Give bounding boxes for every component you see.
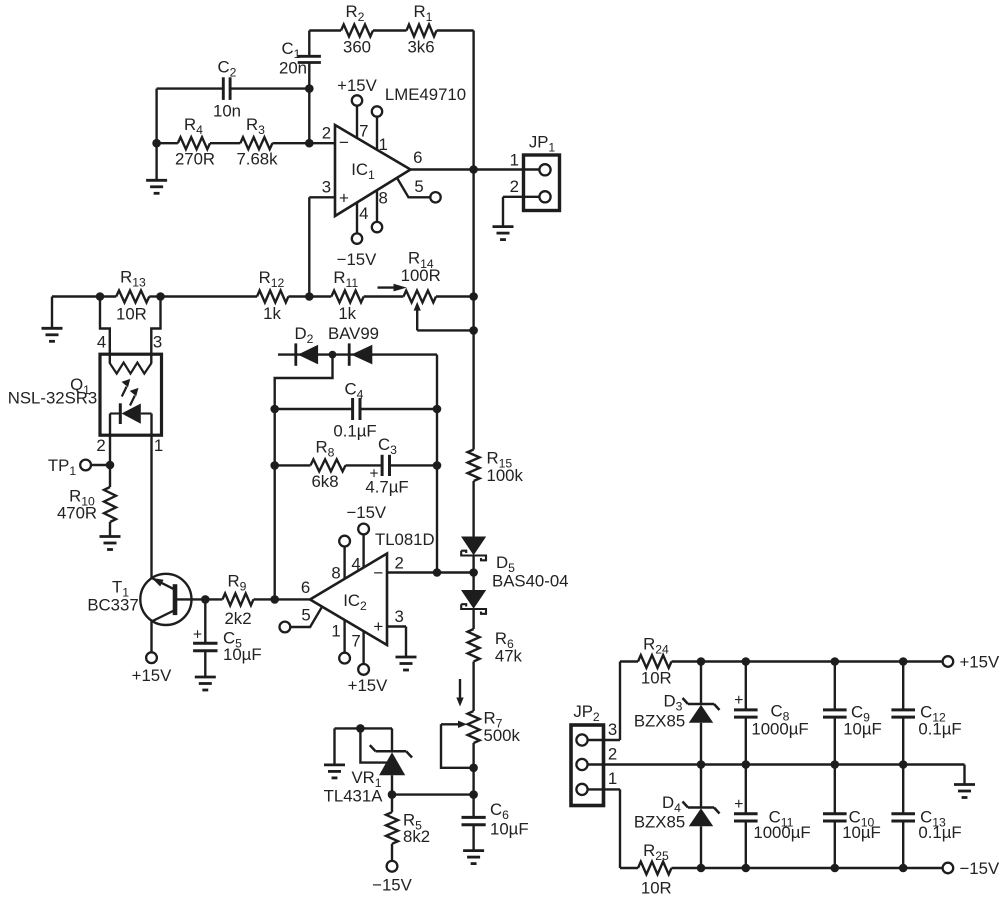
terminal -15V R5 (387, 861, 398, 872)
label BZX85 D4 (634, 813, 685, 832)
pin 8 IC2 (331, 536, 350, 583)
node output junction (469, 165, 478, 174)
label pin 2 (322, 123, 331, 142)
svg-text:1k: 1k (263, 304, 281, 323)
resistor R10 (104, 465, 116, 536)
label D5 (496, 553, 515, 575)
capacitor C12 (891, 662, 915, 765)
svg-text:6k8: 6k8 (311, 472, 338, 491)
resistor R5 (386, 795, 398, 861)
wire JP2 pin3 to +rail (620, 662, 638, 741)
svg-text:100k: 100k (487, 466, 524, 485)
label pin 3 (322, 178, 331, 197)
label C6 (490, 800, 509, 822)
svg-text:3: 3 (395, 607, 404, 626)
label C1 (282, 39, 301, 61)
svg-text:3k6: 3k6 (407, 38, 434, 57)
node -rail C11 (742, 864, 751, 873)
label R10 (69, 487, 95, 509)
wire VR1 ref loop (360, 728, 387, 762)
svg-text:+: + (734, 796, 743, 813)
capacitor C13 (891, 765, 915, 869)
svg-text:10µF: 10µF (842, 823, 881, 842)
svg-text:4: 4 (351, 555, 360, 574)
label T1 (112, 578, 129, 600)
ground left of VR1 (324, 728, 345, 778)
node R4 left junction (152, 139, 161, 148)
resistor R6 (468, 629, 480, 662)
label C9 (851, 702, 870, 724)
label 1000uF C11 (753, 823, 810, 842)
svg-text:TL431A: TL431A (324, 786, 384, 805)
label VR1 (351, 768, 381, 790)
capacitor C5 (193, 599, 218, 676)
wire R13 to R12 (161, 295, 258, 297)
label R2 (346, 2, 365, 24)
svg-text:2: 2 (96, 436, 105, 455)
node R13 left (96, 292, 105, 301)
svg-text:10R: 10R (641, 878, 672, 897)
wire C2 left branch (155, 89, 157, 144)
node C4 left (270, 405, 279, 414)
label 10uF C5 (223, 645, 262, 664)
svg-text:2: 2 (322, 123, 331, 142)
light arrows inside Q1 (122, 379, 139, 406)
label pin 6 IC2 (301, 578, 310, 597)
svg-text:2: 2 (608, 744, 617, 763)
label 7.68k (236, 149, 278, 168)
svg-text:1: 1 (510, 151, 519, 170)
svg-text:3: 3 (322, 178, 331, 197)
label 100k (487, 466, 524, 485)
svg-text:7: 7 (359, 121, 368, 140)
label C2 (218, 58, 237, 80)
pin 5 IC2 (280, 606, 323, 633)
svg-text:−15V: −15V (960, 859, 1000, 878)
label 0.1uF C4 (333, 422, 376, 441)
node +rail C12 (899, 657, 908, 666)
pin 1 IC2 (331, 620, 350, 663)
svg-text:−: − (339, 133, 349, 152)
capacitor C2 (157, 77, 310, 100)
svg-text:+15V: +15V (960, 653, 1000, 672)
diode D2b (349, 343, 372, 365)
wire opto pin4 (100, 297, 110, 364)
wire IC1 output pin 6 (411, 148, 541, 170)
capacitor C8 (734, 662, 758, 765)
svg-text:10µF: 10µF (490, 820, 529, 839)
svg-text:1: 1 (331, 621, 340, 640)
svg-text:+15V: +15V (348, 676, 388, 695)
pin 3 JP2 (576, 720, 620, 746)
svg-text:0.1µF: 0.1µF (918, 720, 961, 739)
wire left vertical C4 to pin6 (274, 409, 276, 599)
label D4 (662, 793, 681, 815)
wire 0V rail (588, 763, 965, 765)
wire D2 rail (278, 353, 437, 355)
potentiometer R7 (468, 711, 480, 743)
svg-text:+15V: +15V (337, 76, 377, 95)
label -15V IC2 (346, 503, 386, 522)
label R5 (403, 811, 422, 833)
label C4 (345, 379, 364, 401)
resistor R1 (407, 25, 437, 37)
node pin2 mid junction (433, 568, 442, 577)
LED inside Q1 (110, 403, 152, 424)
ground JP1 (493, 197, 514, 240)
diode D2a (296, 343, 318, 365)
wire right vertical C4/C3 (436, 355, 438, 573)
svg-text:BC337: BC337 (87, 596, 138, 615)
svg-text:1000µF: 1000µF (751, 720, 808, 739)
svg-text:470R: 470R (57, 504, 97, 523)
label TL081D (375, 530, 435, 549)
wire opto pin3 (151, 297, 160, 364)
label 1k R11 (338, 304, 356, 323)
node TP1 junction (106, 461, 115, 470)
label C13 (920, 808, 946, 830)
label 10uF C6 (490, 820, 529, 839)
label C11 (769, 808, 794, 830)
resistor R4 (157, 137, 210, 149)
node R13 right (156, 292, 165, 301)
wire main bus upper (472, 31, 474, 450)
label +15V IC1 (337, 76, 377, 95)
label 2k2 (224, 609, 251, 628)
wire T1 collector to +15V (146, 621, 157, 663)
svg-text:500k: 500k (484, 726, 521, 745)
node R12-R11 junction (305, 292, 314, 301)
connector JP1 box (524, 155, 560, 211)
label 500k (484, 726, 521, 745)
label 20n (279, 59, 307, 78)
svg-text:1k: 1k (338, 304, 356, 323)
label JP1 (529, 133, 556, 155)
pin 7 IC1 (352, 95, 369, 140)
pin 7 IC2 (351, 631, 369, 675)
svg-text:BZX85: BZX85 (634, 813, 685, 832)
node C4 right (433, 405, 442, 414)
label C3 (378, 435, 397, 457)
label R12 (259, 268, 285, 290)
node +rail C9 (831, 657, 840, 666)
label pin 4 opto (97, 333, 106, 352)
svg-text:+: + (339, 188, 349, 207)
label BZX85 D3 (634, 712, 685, 731)
svg-text:4: 4 (359, 204, 368, 223)
test point TP1 (48, 456, 110, 478)
label BAS40-04 (492, 572, 569, 591)
node R7 wiper junction (469, 764, 478, 773)
wire opto pin2 (96, 414, 110, 466)
wire +15V rail (672, 660, 943, 662)
svg-text:1: 1 (154, 436, 163, 455)
node bus mid-wire junction (469, 292, 478, 301)
pin 5 IC1 (397, 177, 441, 203)
wire middle rail left (52, 295, 100, 297)
label +15V T1 (132, 666, 172, 685)
wire opto pin1 (152, 414, 164, 578)
wire R7 to C6 node (472, 743, 474, 795)
svg-text:LME49710: LME49710 (385, 85, 466, 104)
svg-text:1: 1 (379, 135, 388, 154)
node bus wiper junction (469, 326, 478, 335)
svg-text:7.68k: 7.68k (236, 149, 278, 168)
label 100R (401, 266, 441, 285)
node base junction (201, 595, 210, 604)
node -rail C13 (899, 864, 908, 873)
svg-text:+: + (193, 627, 202, 644)
node IC2 pin6 junction (270, 595, 279, 604)
label 10uF C10 (842, 823, 881, 842)
node VR1 ref junction (356, 724, 365, 733)
ground under C6 (463, 851, 484, 864)
wire IC1 pin3 input (309, 197, 335, 296)
resistor R12 (257, 291, 309, 303)
label R14 (408, 249, 434, 271)
svg-text:47k: 47k (495, 647, 523, 666)
label -15V R5 (372, 875, 412, 894)
label +15V IC2 (348, 676, 388, 695)
label R11 (333, 268, 358, 290)
label 6k8 (311, 472, 338, 491)
ground under R10 (100, 537, 121, 550)
label 470R (57, 504, 97, 523)
capacitor C1 (298, 31, 321, 144)
node 0rail D3 (697, 760, 706, 769)
label R15 (487, 449, 513, 471)
svg-text:6: 6 (301, 578, 310, 597)
wire R6 to R7 (472, 662, 474, 712)
capacitor C6 (462, 795, 486, 851)
svg-text:+: + (734, 692, 743, 709)
svg-text:1: 1 (608, 769, 617, 788)
label R6 (495, 629, 514, 651)
svg-text:5: 5 (414, 177, 423, 196)
node R8 left (270, 461, 279, 470)
wire top feedback rail (309, 29, 473, 31)
label R1 (414, 2, 433, 24)
zener D3 (683, 662, 720, 765)
label BAV99 (328, 324, 379, 343)
svg-text:8: 8 (331, 563, 340, 582)
label C12 (920, 702, 946, 724)
optocoupler Q1 box (100, 354, 162, 435)
arrow right (to R14) (378, 284, 407, 292)
node 0rail C9 (831, 760, 840, 769)
label 1k R12 (263, 304, 281, 323)
label 1000uF C8 (751, 720, 808, 739)
svg-text:10R: 10R (641, 669, 672, 688)
label R25 (643, 841, 669, 863)
label C5 (223, 629, 242, 651)
pin 2 JP2 (576, 744, 617, 770)
wire bus to D5 (472, 481, 474, 537)
svg-text:0.1µF: 0.1µF (333, 422, 376, 441)
wire D2 junction to C4 node (275, 355, 333, 409)
label R8 (316, 438, 335, 460)
photo-resistor inside Q1 (110, 363, 152, 374)
resistor R24 (638, 655, 672, 668)
svg-text:−: − (373, 563, 383, 582)
label 0.1uF C12 (918, 720, 961, 739)
svg-text:270R: 270R (175, 149, 215, 168)
label 10R R13 (116, 304, 147, 323)
pin 4 IC2 (351, 524, 369, 574)
svg-text:0.1µF: 0.1µF (918, 823, 961, 842)
label -15V rail (960, 859, 1000, 878)
ground under R4 node (146, 143, 167, 193)
svg-text:BAS40-04: BAS40-04 (492, 572, 569, 591)
label D3 (664, 692, 683, 714)
wire -15V rail (672, 867, 943, 869)
diode D5b (lower half BAS40-04) (461, 573, 486, 630)
label TL431A (324, 786, 384, 805)
svg-text:5: 5 (301, 606, 310, 625)
svg-text:10R: 10R (116, 304, 147, 323)
ground IC2 pin3 (396, 657, 417, 670)
label pin 3 opto (153, 333, 162, 352)
svg-text:−15V: −15V (346, 503, 386, 522)
label C8 (771, 702, 790, 724)
label 47k (495, 647, 523, 666)
svg-text:100R: 100R (401, 266, 441, 285)
svg-text:20n: 20n (279, 59, 307, 78)
diode D5a (upper half BAS40-04) (461, 537, 486, 573)
label 0.1uF C13 (918, 823, 961, 842)
svg-text:2: 2 (510, 177, 519, 196)
node C3 right (433, 461, 442, 470)
svg-text:10µF: 10µF (223, 645, 262, 664)
node VR1 anode junction (388, 790, 397, 799)
transistor T1 body (140, 574, 191, 625)
svg-text:360: 360 (343, 38, 371, 57)
svg-text:TL081D: TL081D (375, 530, 435, 549)
node C2 junction (305, 84, 314, 93)
resistor R13 (100, 291, 161, 303)
label 10uF C9 (843, 720, 882, 739)
wire T1 base (177, 598, 205, 600)
wire IC2 pin2 (387, 553, 474, 572)
label C10 (849, 808, 875, 830)
capacitor C9 (823, 662, 847, 765)
label 270R (175, 149, 215, 168)
terminal -15V (943, 863, 954, 874)
pin 8 IC1 (372, 188, 388, 232)
svg-text:4.7µF: 4.7µF (365, 478, 408, 497)
svg-text:10n: 10n (213, 102, 241, 121)
node -rail C10 (831, 864, 840, 873)
resistor R15 (468, 450, 480, 482)
svg-text:4: 4 (97, 333, 106, 352)
node D2 center junction (329, 351, 337, 359)
capacitor C11 (734, 765, 758, 869)
resistor R9 (205, 593, 310, 605)
label 360 (343, 38, 371, 57)
svg-text:8: 8 (379, 188, 388, 207)
label Q1 (70, 375, 90, 397)
svg-text:3: 3 (153, 333, 162, 352)
resistor R25 (638, 862, 672, 875)
terminal +15V (943, 656, 954, 667)
svg-text:−15V: −15V (372, 875, 412, 894)
svg-text:2k2: 2k2 (224, 609, 251, 628)
node +rail D3 (697, 657, 706, 666)
resistor R11 (309, 291, 403, 303)
svg-text:+: + (373, 617, 383, 636)
label 10n (213, 102, 241, 121)
svg-text:6: 6 (413, 148, 422, 167)
connector JP2 box (571, 725, 604, 806)
wire IC2 pin3 to ground (387, 607, 406, 657)
node C6 junction (469, 790, 478, 799)
label R7 (484, 709, 503, 731)
label BC337 (87, 596, 138, 615)
label R13 (120, 268, 146, 290)
label 3k6 (407, 38, 434, 57)
label NSL-32SR3 (8, 389, 98, 408)
label -15V IC1 (337, 250, 377, 269)
wire VR1 to bus (392, 793, 474, 795)
node -rail D4 (697, 864, 706, 873)
svg-text:−15V: −15V (337, 250, 377, 269)
label 10R R25 (641, 878, 672, 897)
node IC2 pin2 bus junction (469, 568, 478, 577)
svg-text:BAV99: BAV99 (328, 324, 379, 343)
resistor R3 (210, 137, 335, 149)
label R4 (184, 115, 203, 137)
resistor R2 (341, 25, 373, 37)
svg-text:NSL-32SR3: NSL-32SR3 (8, 389, 98, 408)
wire VR1 top (335, 727, 393, 729)
label +15V rail (960, 653, 1000, 672)
node 0rail C8 (742, 760, 751, 769)
svg-text:2: 2 (395, 553, 404, 572)
svg-text:7: 7 (351, 631, 360, 650)
label R3 (246, 115, 265, 137)
label JP2 (573, 702, 600, 724)
label 4.7uF (365, 478, 408, 497)
wiper R7 (441, 721, 474, 768)
potentiometer R14 (404, 291, 474, 303)
ground left of R13 (42, 297, 63, 342)
svg-text:10µF: 10µF (843, 720, 882, 739)
capacitor C3 (369, 455, 437, 483)
svg-text:8k2: 8k2 (403, 827, 430, 846)
zener D4 (683, 765, 720, 869)
ground 0V rail (954, 765, 975, 798)
arrow down (set current) (456, 679, 463, 707)
pin 1 JP2 (576, 769, 620, 795)
svg-text:BZX85: BZX85 (634, 712, 685, 731)
wiper R14 (414, 302, 474, 331)
pin 2 JP1 (503, 177, 551, 202)
op-amp IC2 body (310, 554, 387, 646)
node +rail C8 (742, 657, 751, 666)
label R9 (228, 572, 247, 594)
node 0rail C12 (899, 760, 908, 769)
wire JP2 pin1 to -rail (620, 789, 638, 868)
capacitor C10 (823, 765, 847, 869)
svg-text:+15V: +15V (132, 666, 172, 685)
svg-text:3: 3 (608, 720, 617, 739)
pin 1 JP1 (510, 151, 551, 176)
label 8k2 (403, 827, 430, 846)
label D2 (295, 324, 314, 346)
pin 1 IC1 (372, 106, 388, 154)
label R24 (643, 635, 669, 657)
svg-text:1000µF: 1000µF (753, 823, 810, 842)
